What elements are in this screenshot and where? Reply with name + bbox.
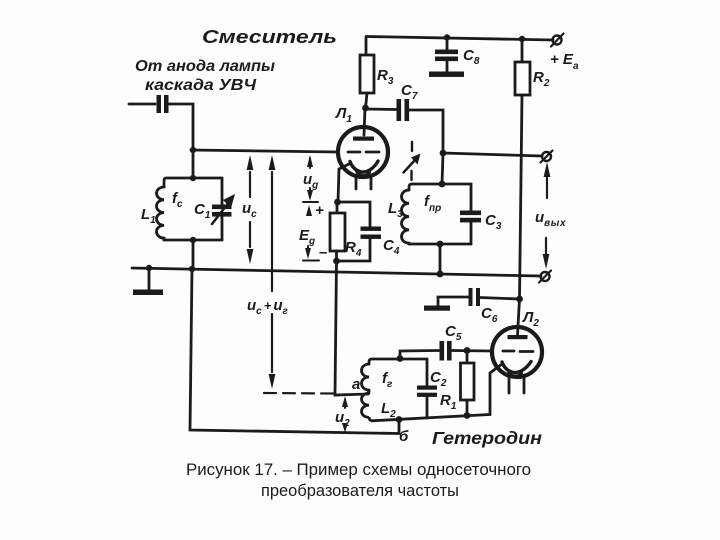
node L1 bottom xyxy=(190,237,196,243)
arrow uc top xyxy=(249,172,251,197)
arrow uvyh up xyxy=(546,176,548,198)
wire input left xyxy=(129,103,155,106)
tube Л2 anode bar xyxy=(508,335,528,339)
wire L3 top lead xyxy=(442,153,443,184)
wire output top xyxy=(443,153,542,156)
capacitor C6 xyxy=(480,298,520,300)
node bus L3 xyxy=(437,271,444,278)
tube Л2 grid dashes xyxy=(503,350,533,353)
svg-text:–: – xyxy=(319,244,327,261)
tube Л1 envelope xyxy=(338,127,388,177)
wire input to grid bus xyxy=(169,104,194,150)
wire Л2 cathode lead xyxy=(490,364,502,415)
tube Л1 heater stubs xyxy=(356,177,371,190)
arrow uvyh down xyxy=(545,238,547,255)
wire left vertical down xyxy=(192,150,195,178)
tank fг L2 top edge xyxy=(369,359,427,364)
capacitor C4 xyxy=(337,202,370,227)
node L3 top xyxy=(439,181,446,188)
capacitor C1 variable xyxy=(212,205,232,210)
inductor L3 tank xyxy=(409,184,442,190)
node grid junction xyxy=(190,147,196,153)
wire b stub xyxy=(398,420,401,434)
resistor R1 xyxy=(466,351,469,364)
wire C5 to grid xyxy=(452,349,493,352)
node C7 output junction xyxy=(440,150,447,157)
node R4 bottom xyxy=(333,258,340,265)
svg-text:Смеситель: Смеситель xyxy=(202,26,337,47)
variable coupling arrow symbol xyxy=(410,142,413,180)
wire +Ea rail xyxy=(366,37,553,41)
tube Л1 cathode xyxy=(350,161,378,172)
node R3 bottom / C7 xyxy=(362,105,369,112)
svg-text:б: б xyxy=(399,428,409,445)
dashed reference line xyxy=(264,392,333,395)
wire ground bus xyxy=(132,268,541,276)
arrow uc bottom xyxy=(249,222,251,247)
node ground stub xyxy=(146,265,152,271)
inductor L1 tank box xyxy=(164,178,222,187)
inductor L2 xyxy=(362,393,373,421)
svg-text:+: + xyxy=(315,202,324,219)
node R2 top xyxy=(519,36,525,42)
node cathode junction xyxy=(334,199,341,206)
capacitor C5 xyxy=(440,341,445,361)
node C8 top xyxy=(444,34,450,40)
svg-text:преобразователя частоты: преобразователя частоты xyxy=(261,482,459,500)
tube Л1 anode bar xyxy=(353,137,374,141)
wire cathode to tap a xyxy=(335,261,368,395)
terminal +Ea xyxy=(553,36,562,45)
svg-text:a: a xyxy=(352,376,360,393)
tube Л1 grid dashes xyxy=(348,151,379,154)
arrow C1 adjust xyxy=(212,202,229,224)
arrow u2 top xyxy=(344,406,346,408)
arrow Eg bottom with tick xyxy=(307,246,309,254)
ground C6 xyxy=(424,306,450,311)
wire L3 to bus xyxy=(439,244,442,274)
tube Л2 envelope xyxy=(492,327,542,377)
capacitor input coupling xyxy=(157,95,162,113)
arrow ug top xyxy=(309,158,311,168)
node C5 tap xyxy=(397,355,404,362)
inductor fг xyxy=(362,364,370,390)
capacitor C3 xyxy=(460,211,481,216)
wire left vertical to bottom xyxy=(190,269,399,434)
node L1 top xyxy=(190,175,196,181)
wire grid bus xyxy=(191,150,338,152)
capacitor C2 xyxy=(426,359,429,386)
svg-text:Гетеродин: Гетеродин xyxy=(432,428,542,448)
arrow Eg top xyxy=(306,205,312,216)
node L3 bottom xyxy=(437,241,444,248)
node tank bottom xyxy=(396,416,403,423)
terminal output bottom xyxy=(541,272,550,281)
svg-text:От анода лампы: От анода лампы xyxy=(135,58,275,75)
ground C8 xyxy=(429,72,464,77)
svg-text:Рисунок 17. – Пример схемы о: Рисунок 17. – Пример схемы односеточного xyxy=(186,461,531,479)
tube Л2 cathode xyxy=(502,362,531,373)
svg-text:каскада УВЧ: каскада УВЧ xyxy=(145,77,257,94)
capacitor C7 xyxy=(366,108,397,111)
ground chassis left xyxy=(148,268,151,290)
arrow ug bottom with tick xyxy=(309,188,311,197)
wire tap to C5 xyxy=(400,351,439,359)
arrow uc+ug top xyxy=(271,172,273,291)
resistor R2 xyxy=(521,39,524,62)
node R1 top xyxy=(464,347,471,354)
arrow uc+ug bottom xyxy=(271,314,273,372)
coil tap to a xyxy=(368,391,369,394)
tube Л1 anode lead xyxy=(364,108,365,135)
node R1 bottom xyxy=(464,412,471,419)
node C6 anode line xyxy=(516,296,523,303)
node bus left vertical xyxy=(189,266,195,272)
arrow u2 bottom xyxy=(344,425,346,426)
wire C1 branch right side xyxy=(221,178,224,205)
tube Л2 heater stubs xyxy=(509,377,524,393)
resistor R4 xyxy=(336,202,339,213)
resistor R3 xyxy=(365,38,368,55)
terminal output top xyxy=(542,152,551,161)
wire Л1 cathode lead xyxy=(338,163,351,202)
capacitor C8 xyxy=(446,38,449,50)
tube Л2 anode lead xyxy=(518,299,520,335)
wire tank bottom to cathode xyxy=(372,415,490,421)
wire L1 bottom to ground bus xyxy=(192,240,195,269)
